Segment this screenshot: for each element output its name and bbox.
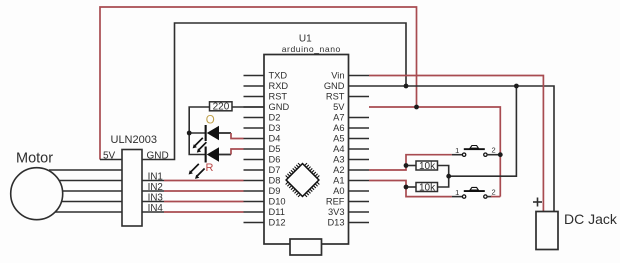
svg-text:5V: 5V [333,102,345,112]
svg-text:GND: GND [269,102,290,112]
svg-text:Vin: Vin [331,71,344,81]
wire: motor lead 5 [55,211,122,213]
svg-text:A7: A7 [333,113,344,123]
svg-text:RST: RST [269,92,288,102]
switch S1 [452,146,500,157]
wire: IN4 to D11 red [164,211,244,213]
pin labels right side U1 [324,71,345,228]
wire: motor lead 3 [63,190,122,192]
LED D1 orange [193,125,231,153]
junction dot resistor common [446,174,451,179]
svg-text:ULN2003: ULN2003 [111,134,157,146]
wire: IN1 stub black [142,180,164,182]
junction dot A2/R1 [404,163,409,168]
junction dot GND row left [404,84,409,89]
svg-text:O: O [206,115,215,127]
resistor R1 10k [416,161,438,172]
svg-text:10k: 10k [419,161,436,172]
svg-text:D3: D3 [269,123,281,133]
wire: 5V red row to switches [369,107,500,197]
wire: IN3 stub black [142,201,164,203]
wire: 220 left lead down to LEDs [189,107,209,155]
svg-text:D7: D7 [269,165,281,175]
svg-text:A2: A2 [333,165,344,175]
wire: A1 to R2 and S2 pin1 red [369,181,452,197]
svg-text:D12: D12 [269,218,286,228]
wire: IN3 to D10 red [164,201,244,203]
svg-text:A3: A3 [333,155,344,165]
driver ULN2003 [103,134,169,226]
wire: motor lead 4 [62,201,123,203]
wire: A2 to R1 and S1 pin1 red [369,155,452,170]
wire: GND row from Arduino GND to DC jack minus [349,86,555,212]
usb connector of U1 [290,239,322,255]
wire: branch to LED1 [189,132,206,134]
svg-text:DC Jack: DC Jack [564,211,618,227]
pin stubs right side U1 [349,76,370,223]
wire: IN2 stub black [142,190,164,192]
svg-text:D6: D6 [269,155,281,165]
svg-text:D13: D13 [327,218,344,228]
wire: motor lead 2 [60,180,123,182]
wire: LED1 to D4 red [231,133,244,139]
wire: GND black top loop (ULN2003 GND to Arduino GND row) [142,23,406,160]
wire: resistors common to GND [438,166,449,188]
wire: IN4 stub black [142,211,164,213]
svg-text:A4: A4 [333,144,344,154]
DC jack J1 [533,198,618,250]
svg-text:IN2: IN2 [148,182,163,193]
svg-text:IN4: IN4 [148,203,164,214]
wire: 220 right lead to Arduino GND pin [232,106,264,108]
svg-text:A0: A0 [333,186,344,196]
resistor R220 (220 ohm) [210,102,233,113]
pin labels left side U1 [269,71,290,228]
junction dot 5V row [414,105,419,110]
switch S2 [452,187,500,198]
wire: motor lead 1 [49,169,122,171]
svg-text:A5: A5 [333,134,344,144]
svg-text:RXD: RXD [269,81,289,91]
svg-text:10k: 10k [419,183,436,194]
svg-text:220: 220 [213,102,230,113]
wire: R2 left lead [406,186,416,188]
svg-text:1: 1 [455,188,459,197]
IC U1 arduino nano [264,34,349,245]
svg-text:2: 2 [492,146,496,155]
resistor R2 10k [416,183,438,194]
svg-text:5V: 5V [103,151,116,162]
junction dot LED branch [187,131,192,136]
svg-text:GND: GND [147,151,169,162]
svg-text:Motor: Motor [16,151,53,167]
svg-text:TXD: TXD [269,71,288,81]
wire: common node to GND vertical [449,86,517,176]
pin stubs left side U1 [244,76,265,223]
svg-text:IN1: IN1 [148,171,163,182]
svg-text:U1: U1 [299,34,312,45]
svg-text:D5: D5 [269,144,281,154]
chip icon inside U1 [281,159,324,202]
motor M1 [11,151,63,220]
wire: R1 left lead [406,165,416,167]
junction dot S1 pin2 / 5V [498,152,503,157]
svg-text:D11: D11 [269,207,285,217]
svg-text:A6: A6 [333,123,344,133]
svg-text:A1: A1 [333,176,344,186]
wire: LED2 to D5 red [231,149,244,155]
junction dot A1/R2 [404,185,409,190]
svg-text:REF: REF [326,197,345,207]
svg-text:1: 1 [455,146,459,155]
svg-text:IN3: IN3 [148,192,164,203]
svg-text:3V3: 3V3 [328,207,345,217]
svg-text:D8: D8 [269,176,281,186]
svg-text:D2: D2 [269,113,281,123]
svg-text:D4: D4 [269,134,281,144]
wire: IN2 to D9 red [164,190,244,192]
wire: ULN2003 5V pin stub [100,159,122,161]
svg-text:D10: D10 [269,197,286,207]
svg-text:GND: GND [324,81,345,91]
junction dot GND row [514,84,519,89]
svg-text:D9: D9 [269,186,281,196]
wire: 5V red rail top loop (ULN2003 5V to Arduino 5V) [100,7,417,160]
svg-text:2: 2 [492,188,496,197]
svg-text:RST: RST [326,92,345,102]
svg-text:arduino_nano: arduino_nano [282,44,341,54]
svg-text:R: R [206,162,214,174]
LED D2 red [189,147,231,179]
wire: Vin red from Arduino Vin to DC jack plus [369,76,543,212]
wire: IN1 to D8 red [164,180,244,182]
